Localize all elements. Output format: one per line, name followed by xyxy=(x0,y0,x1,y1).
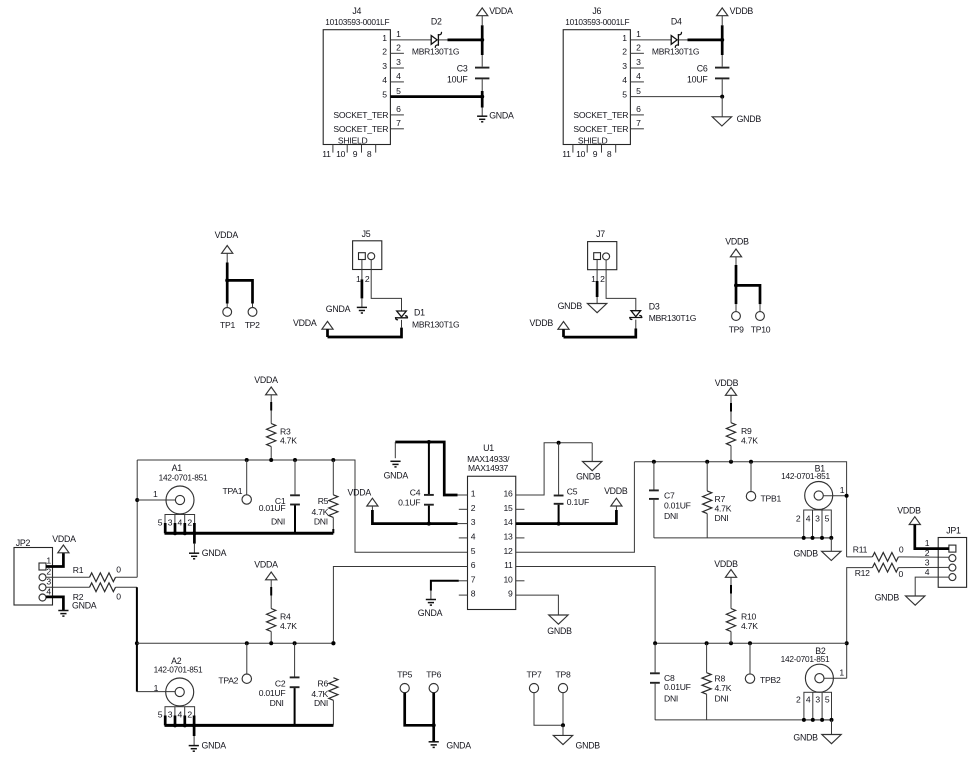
node TP7/TP8 junction xyxy=(561,723,565,727)
node B1 pin1 junction xyxy=(845,494,849,498)
wire to GNDA xyxy=(432,725,435,741)
svg-text:3: 3 xyxy=(622,61,627,71)
wire JP2 pin2 to R1 xyxy=(46,576,90,578)
svg-text:4: 4 xyxy=(396,71,401,81)
wire branch to TP2 xyxy=(227,280,252,303)
svg-text:4.7K: 4.7K xyxy=(741,436,758,446)
ground GNDA (U1 pin7) xyxy=(426,599,436,601)
svg-text:3: 3 xyxy=(46,577,51,587)
svg-text:MAX14937: MAX14937 xyxy=(468,463,509,473)
svg-text:TP6: TP6 xyxy=(426,670,441,680)
svg-text:C2: C2 xyxy=(275,678,286,688)
svg-text:GNDB: GNDB xyxy=(793,733,818,743)
power VDDA (D1) xyxy=(322,321,333,329)
wire C3 bottom to pin5 net xyxy=(481,79,483,91)
J5 pin 1 (square) xyxy=(359,253,366,260)
wire VDDB to JP1 pin1 xyxy=(915,525,949,549)
JP1 pin 1 (square) xyxy=(949,545,956,552)
node A1 pin1 tap xyxy=(135,498,139,502)
svg-text:3: 3 xyxy=(168,518,173,528)
J6 pin 11 stub xyxy=(572,145,574,153)
svg-text:GNDB: GNDB xyxy=(875,593,900,603)
svg-text:4: 4 xyxy=(382,75,387,85)
wire U1 pin1 net (GNDA top) xyxy=(457,494,468,496)
ground GNDA (JP2) xyxy=(58,610,68,612)
svg-text:J5: J5 xyxy=(362,229,371,239)
wire C6 bottom to pin5 net xyxy=(721,79,723,96)
svg-text:3: 3 xyxy=(815,514,820,524)
J6 pin 9 stub xyxy=(601,145,603,153)
svg-text:0: 0 xyxy=(899,544,904,554)
svg-text:4: 4 xyxy=(178,710,183,720)
svg-text:D3: D3 xyxy=(649,302,660,312)
svg-text:1: 1 xyxy=(154,683,159,693)
JP2 pin 1 (square) xyxy=(39,563,46,570)
svg-text:VDDA: VDDA xyxy=(52,534,76,544)
wire B2 pin 1 xyxy=(824,677,847,679)
svg-text:VDDB: VDDB xyxy=(604,486,628,496)
capacitor C7 0.01UF DNI xyxy=(653,462,655,490)
svg-text:R8: R8 xyxy=(715,674,726,684)
svg-text:GNDA: GNDA xyxy=(326,304,351,314)
wire R2 to A2 net vertical xyxy=(116,586,137,588)
svg-text:3: 3 xyxy=(815,695,820,705)
svg-text:5: 5 xyxy=(158,710,163,720)
B2 ground rail xyxy=(655,719,832,721)
wire A1 pin2 to GNDA xyxy=(193,533,196,543)
svg-text:14: 14 xyxy=(503,517,513,527)
resistor R1 0 xyxy=(90,573,116,582)
svg-text:1: 1 xyxy=(839,667,844,677)
wire U1 pin9 to GNDB xyxy=(516,595,559,615)
svg-text:3: 3 xyxy=(636,57,641,67)
wire JP2 pin4 to GNDA xyxy=(46,597,63,610)
connector J4 xyxy=(323,30,390,145)
J7 pin 1 (square) xyxy=(594,253,601,260)
svg-text:0.01UF: 0.01UF xyxy=(259,688,286,698)
wire TP6 down xyxy=(432,693,435,726)
svg-text:1: 1 xyxy=(622,33,627,43)
A2 barrel outer xyxy=(166,678,194,706)
bus B1 xyxy=(634,462,846,557)
svg-text:2: 2 xyxy=(46,567,51,577)
svg-text:11: 11 xyxy=(562,149,571,159)
J4 pin 11 stub xyxy=(332,145,334,153)
wire TP7 to junction xyxy=(534,693,563,726)
node C4 bottom / pin3 xyxy=(427,522,431,526)
wire R3 to bus xyxy=(270,447,272,461)
wire U1 pin16 net (GNDB top) xyxy=(516,443,592,495)
A1 pin wires xyxy=(164,523,167,533)
wire J4 pin5 to C3/GNDA node xyxy=(390,95,482,98)
JP1 pin 3 xyxy=(949,564,956,571)
B1 barrel inner xyxy=(814,491,823,500)
wire TP5 to GNDA xyxy=(405,693,434,726)
svg-text:8: 8 xyxy=(607,149,612,159)
svg-text:TPB2: TPB2 xyxy=(760,675,781,685)
svg-text:GNDA: GNDA xyxy=(202,548,227,558)
wire U1 pin11 to B2 bus xyxy=(516,567,655,644)
wire vertical A1 net (bus to R1) xyxy=(136,460,138,577)
svg-text:2: 2 xyxy=(396,43,401,53)
wire VDDB to R10 xyxy=(730,577,732,585)
svg-text:2: 2 xyxy=(365,274,370,284)
svg-text:MBR130T1G: MBR130T1G xyxy=(652,47,699,57)
svg-text:VDDB: VDDB xyxy=(725,236,749,246)
test point TPA1 xyxy=(246,460,248,495)
svg-text:VDDA: VDDA xyxy=(215,230,239,240)
svg-text:10UF: 10UF xyxy=(687,75,708,85)
svg-text:VDDB: VDDB xyxy=(530,318,554,328)
wire VDDA to R3 xyxy=(270,395,272,402)
svg-text:VDDA: VDDA xyxy=(254,375,278,385)
JP2 pin 4 xyxy=(39,594,46,601)
wire VDDA to TP1 xyxy=(226,253,228,262)
svg-text:9: 9 xyxy=(353,149,358,159)
resistor R8 4.7K DNI xyxy=(706,643,708,672)
svg-text:3: 3 xyxy=(925,558,930,568)
svg-text:MBR130T1G: MBR130T1G xyxy=(412,319,459,329)
wire JP2 pin3 to R2 xyxy=(46,586,90,588)
test point TPA2 xyxy=(246,643,248,674)
wire D3 to VDDB xyxy=(635,320,637,329)
svg-text:2: 2 xyxy=(187,710,192,720)
ground GNDA (A2) xyxy=(189,745,199,747)
JP2 pin 3 xyxy=(39,584,46,591)
wire D1 to VDDA xyxy=(401,320,403,328)
svg-text:4.7K: 4.7K xyxy=(715,683,732,693)
node J4 pin5 junction xyxy=(480,95,484,99)
wire A1 pin 1 xyxy=(137,499,175,501)
svg-text:TPB1: TPB1 xyxy=(761,493,782,503)
capacitor C1 0.01UF DNI xyxy=(294,460,296,494)
svg-text:R1: R1 xyxy=(73,565,84,575)
node C4 top xyxy=(427,440,431,444)
ground GNDB (B1) xyxy=(822,551,841,560)
svg-text:C4: C4 xyxy=(410,488,421,498)
svg-text:DNI: DNI xyxy=(715,693,729,703)
svg-text:2: 2 xyxy=(471,503,476,513)
ground GNDB (J6/C6) xyxy=(712,117,731,126)
svg-text:0.01UF: 0.01UF xyxy=(259,503,286,513)
wire J6 pin5 to C6/GNDB node xyxy=(630,96,722,98)
svg-text:DNI: DNI xyxy=(271,517,285,527)
svg-text:5: 5 xyxy=(382,90,387,100)
svg-text:2: 2 xyxy=(187,518,192,528)
J4 pin 7 xyxy=(390,128,404,130)
B1 pin box xyxy=(804,510,832,538)
A1 pin box xyxy=(165,515,195,534)
power VDDB (J6) xyxy=(717,8,728,16)
JP2 pin 2 xyxy=(39,574,46,581)
svg-text:7: 7 xyxy=(396,118,401,128)
svg-text:TP7: TP7 xyxy=(526,670,541,680)
svg-text:1: 1 xyxy=(471,489,476,499)
svg-text:8: 8 xyxy=(471,589,476,599)
A2 pin box xyxy=(165,707,195,726)
svg-text:3: 3 xyxy=(471,517,476,527)
svg-text:R5: R5 xyxy=(318,496,329,506)
svg-text:DNI: DNI xyxy=(314,698,328,708)
resistor R12 0 xyxy=(872,563,898,572)
J5 pin 2 (circle) xyxy=(368,253,375,260)
node B2 bus right junction xyxy=(845,641,849,645)
svg-text:8: 8 xyxy=(367,149,372,159)
resistor R5 4.7K DNI xyxy=(332,460,334,495)
ground GNDA (A1) xyxy=(189,552,199,554)
B2 pin box xyxy=(804,692,832,720)
wire down to GNDB xyxy=(721,97,723,117)
svg-text:SOCKET_TER: SOCKET_TER xyxy=(333,124,388,134)
power VDDA (J4) xyxy=(477,8,488,16)
svg-text:0: 0 xyxy=(116,564,121,574)
svg-text:TP1: TP1 xyxy=(220,320,235,330)
svg-text:3: 3 xyxy=(382,61,387,71)
J4 pin 6 xyxy=(390,114,404,116)
svg-text:TP8: TP8 xyxy=(555,670,570,680)
wire branch to TP10 xyxy=(736,285,760,304)
svg-text:2: 2 xyxy=(600,274,605,284)
svg-text:TP10: TP10 xyxy=(751,324,771,334)
node TP5/TP6 junction xyxy=(432,723,436,727)
svg-text:6: 6 xyxy=(471,560,476,570)
svg-text:C3: C3 xyxy=(457,63,468,73)
node VDDB/D4/C6 junction xyxy=(720,38,724,42)
wire A2 pin 1 xyxy=(137,691,175,693)
svg-text:DNI: DNI xyxy=(715,513,729,523)
ground GNDB (JP1) xyxy=(906,596,925,605)
svg-text:D1: D1 xyxy=(414,308,425,318)
node C5 bottom / pin14 xyxy=(557,522,561,526)
svg-text:142-0701-851: 142-0701-851 xyxy=(781,654,830,664)
capacitor C8 0.01UF DNI xyxy=(654,643,656,672)
svg-text:R6: R6 xyxy=(318,678,329,688)
svg-text:10: 10 xyxy=(576,149,586,159)
svg-text:142-0701-851: 142-0701-851 xyxy=(781,471,830,481)
bus B2 xyxy=(655,642,847,644)
A1 ground rail xyxy=(165,532,334,535)
svg-text:4: 4 xyxy=(178,518,183,528)
wire B2 net vertical (R12 to B2 pin1) xyxy=(847,568,873,679)
svg-text:1: 1 xyxy=(46,556,51,566)
svg-text:6: 6 xyxy=(636,104,641,114)
resistor R6 4.7K DNI xyxy=(329,678,338,701)
svg-text:4.7K: 4.7K xyxy=(280,621,297,631)
svg-text:GNDB: GNDB xyxy=(576,740,601,750)
svg-text:SOCKET_TER: SOCKET_TER xyxy=(573,124,628,134)
svg-text:4: 4 xyxy=(925,567,930,577)
svg-text:D2: D2 xyxy=(431,17,442,27)
diode D4 MBR130T1G xyxy=(671,36,677,45)
svg-text:5: 5 xyxy=(622,90,627,100)
wire VDDB to R9 xyxy=(730,395,732,403)
ground GNDB (J7) xyxy=(587,304,606,313)
J6 pin 6 xyxy=(630,114,644,116)
svg-text:1: 1 xyxy=(925,538,930,548)
svg-text:TP2: TP2 xyxy=(245,320,260,330)
ground GNDB (C5) xyxy=(591,443,593,462)
wire VDDB down through node xyxy=(721,16,723,26)
ground GNDB (U1 pin9) xyxy=(549,615,568,624)
svg-text:SHIELD: SHIELD xyxy=(338,136,368,146)
svg-text:R2: R2 xyxy=(73,592,84,602)
svg-text:J7: J7 xyxy=(596,229,605,239)
svg-text:MBR130T1G: MBR130T1G xyxy=(649,313,696,323)
svg-text:R7: R7 xyxy=(715,494,726,504)
wire J4 pin1 to D2 xyxy=(390,39,431,41)
wire TP8 down xyxy=(562,693,564,726)
wire U1 pin12 to B1 bus xyxy=(516,462,635,553)
wire B1 to GNDB xyxy=(830,538,832,551)
ground GNDB (B2) xyxy=(822,735,841,744)
node A2 bus left junction xyxy=(135,641,139,645)
svg-text:R11: R11 xyxy=(853,544,868,554)
test point TPB2 xyxy=(749,643,751,674)
svg-text:5: 5 xyxy=(471,546,476,556)
svg-text:TP5: TP5 xyxy=(397,670,412,680)
wire J7 pin2 to D3 xyxy=(606,260,636,311)
svg-text:1: 1 xyxy=(153,489,158,499)
svg-text:VDDA: VDDA xyxy=(489,6,513,16)
svg-text:7: 7 xyxy=(636,118,641,128)
svg-text:VDDB: VDDB xyxy=(715,378,739,388)
bus A1 (net to U1 pin5) xyxy=(137,460,467,552)
svg-text:5: 5 xyxy=(396,86,401,96)
svg-text:VDDA: VDDA xyxy=(254,560,278,570)
wire D4 cathode to VDDB node xyxy=(678,39,687,41)
svg-text:4: 4 xyxy=(806,695,811,705)
resistor R4 4.7K xyxy=(267,609,276,632)
B1 barrel outer xyxy=(805,482,833,510)
svg-text:GNDA: GNDA xyxy=(446,740,471,750)
svg-text:SOCKET_TER: SOCKET_TER xyxy=(573,110,628,120)
svg-text:4.7K: 4.7K xyxy=(312,507,329,517)
svg-text:MBR130T1G: MBR130T1G xyxy=(412,47,459,57)
capacitor C4 0.1UF xyxy=(428,442,430,494)
resistor R7 4.7K DNI xyxy=(706,462,708,491)
svg-text:142-0701-851: 142-0701-851 xyxy=(154,665,203,675)
node VDDA/D2/C3 junction xyxy=(480,38,484,42)
svg-text:10103593-0001LF: 10103593-0001LF xyxy=(325,17,389,27)
test point TP9 xyxy=(732,312,741,321)
svg-text:9: 9 xyxy=(508,589,513,599)
A2 pin wires xyxy=(164,716,167,726)
wire R4 to bus xyxy=(270,632,272,644)
wire down to GNDA xyxy=(481,108,483,116)
resistor R9 4.7K xyxy=(726,423,735,446)
node C5 top xyxy=(557,441,561,445)
svg-text:VDDA: VDDA xyxy=(293,318,317,328)
resistor R11 0 xyxy=(872,553,898,562)
svg-text:GNDB: GNDB xyxy=(558,301,583,311)
resistor R2 0 xyxy=(90,583,116,592)
svg-text:DNI: DNI xyxy=(270,698,284,708)
svg-text:5: 5 xyxy=(158,518,163,528)
svg-text:VDDB: VDDB xyxy=(714,559,738,569)
svg-text:GNDB: GNDB xyxy=(793,549,818,559)
svg-text:1: 1 xyxy=(636,29,641,39)
svg-text:1: 1 xyxy=(356,274,361,284)
JP1 pin 2 xyxy=(949,555,956,562)
wire VDDA down through node xyxy=(481,16,483,26)
wire VDDB to U1 pin14 xyxy=(615,506,617,510)
svg-text:3: 3 xyxy=(396,57,401,67)
wire vertical A2 net (R2 to A2 pin1) xyxy=(136,587,138,691)
svg-text:10UF: 10UF xyxy=(447,75,468,85)
svg-text:2: 2 xyxy=(622,46,627,56)
svg-text:4: 4 xyxy=(46,587,51,597)
wire J7 pin1 to GNDB xyxy=(596,260,598,282)
svg-text:J6: J6 xyxy=(592,6,601,16)
node TP9/TP10 branch xyxy=(734,283,738,287)
resistor R3 4.7K xyxy=(267,424,276,447)
svg-text:9: 9 xyxy=(593,149,598,159)
wire J6 pin1 to D4 xyxy=(630,39,671,41)
svg-text:TPA1: TPA1 xyxy=(222,486,242,496)
svg-text:5: 5 xyxy=(636,86,641,96)
wire R12 to JP1 pin3 xyxy=(898,566,949,568)
test point TP10 xyxy=(756,312,765,321)
capacitor C2 0.01UF DNI xyxy=(294,643,296,676)
svg-text:4: 4 xyxy=(471,532,476,542)
svg-text:3: 3 xyxy=(168,710,173,720)
svg-text:DNI: DNI xyxy=(664,693,678,703)
svg-text:0: 0 xyxy=(116,592,121,602)
svg-text:DNI: DNI xyxy=(664,511,678,521)
wire J5 pin1 to GNDA xyxy=(361,260,363,280)
svg-text:7: 7 xyxy=(471,574,476,584)
svg-text:13: 13 xyxy=(503,532,513,542)
svg-text:6: 6 xyxy=(396,104,401,114)
svg-text:2: 2 xyxy=(796,514,801,524)
J6 pin 10 stub xyxy=(586,145,588,153)
J4 pin 9 stub xyxy=(361,145,363,153)
svg-text:VDDA: VDDA xyxy=(348,488,372,498)
svg-text:C6: C6 xyxy=(697,63,708,73)
A1 barrel outer xyxy=(166,486,194,514)
svg-text:1: 1 xyxy=(840,485,845,495)
wire to GNDB xyxy=(562,725,564,735)
svg-text:0.1UF: 0.1UF xyxy=(398,498,420,508)
wire B1 net to R11 xyxy=(847,556,873,558)
svg-text:2: 2 xyxy=(796,695,801,705)
B2 barrel outer xyxy=(805,664,833,692)
node J6 pin5 junction xyxy=(720,95,724,99)
A2 barrel inner xyxy=(175,687,184,696)
wire VDDA to U1 pin3 xyxy=(371,506,373,510)
svg-text:J4: J4 xyxy=(352,6,361,16)
ground GNDB (TP7/TP8) xyxy=(553,735,572,744)
svg-text:2: 2 xyxy=(636,43,641,53)
J4 pin 8 stub xyxy=(375,145,377,153)
svg-text:142-0701-851: 142-0701-851 xyxy=(159,472,208,482)
wire VDDB to TP9 xyxy=(735,257,737,265)
svg-text:1: 1 xyxy=(591,274,596,284)
test point TP2 xyxy=(248,308,257,317)
svg-text:JP2: JP2 xyxy=(16,538,31,548)
svg-text:4: 4 xyxy=(622,75,627,85)
svg-text:TPA2: TPA2 xyxy=(218,676,238,686)
node pin6/A2 bus/R6 xyxy=(331,641,335,645)
ground GNDA (J5) xyxy=(357,306,367,308)
svg-text:VDDB: VDDB xyxy=(730,6,754,16)
svg-text:TP9: TP9 xyxy=(729,324,744,334)
svg-text:0.1UF: 0.1UF xyxy=(567,497,589,507)
diode D2 MBR130T1G xyxy=(431,36,437,45)
bus A2 xyxy=(137,642,333,644)
svg-text:2: 2 xyxy=(382,46,387,56)
wire D2 cathode to VDDA node xyxy=(438,39,447,41)
